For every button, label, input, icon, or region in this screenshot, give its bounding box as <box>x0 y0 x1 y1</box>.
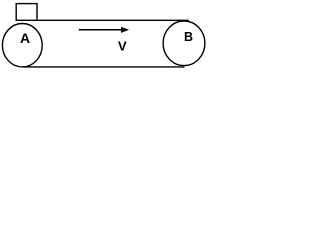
velocity arrow <box>79 27 129 33</box>
pulley A <box>2 24 42 67</box>
pulley B <box>163 21 205 66</box>
svg-text:B: B <box>184 30 193 44</box>
svg-text:A: A <box>20 30 30 46</box>
block on belt <box>16 4 37 21</box>
svg-text:V: V <box>118 38 127 53</box>
belt bottom line <box>23 66 185 68</box>
belt top line <box>16 19 189 21</box>
